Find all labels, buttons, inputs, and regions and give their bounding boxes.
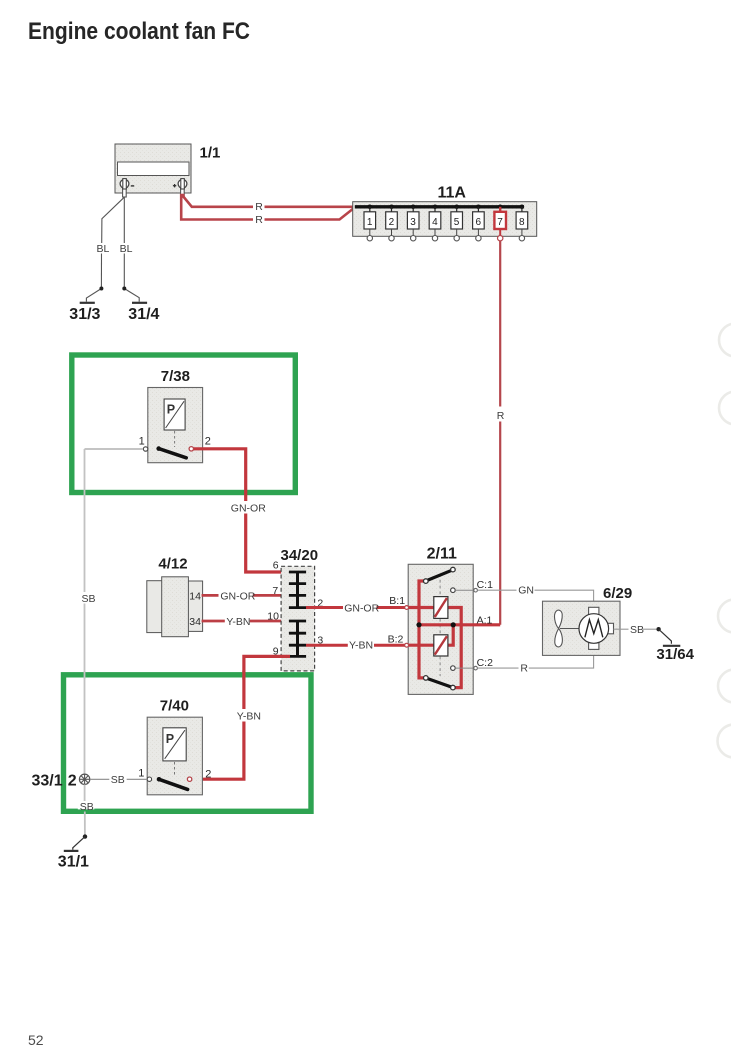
7/40 switch lever (157, 777, 188, 789)
svg-text:8: 8 (519, 217, 525, 228)
wire SB splice to 7/40 pin1 (90, 778, 147, 780)
relay 2/11 (408, 564, 473, 694)
wire GN relay C:1 to motor (477, 590, 593, 607)
34/20 upper connector comb (289, 572, 306, 608)
svg-text:6: 6 (273, 560, 279, 572)
svg-text:GN-OR: GN-OR (231, 502, 266, 514)
wire SB splice to ground 31/1 (84, 785, 86, 802)
svg-text:B:1: B:1 (389, 595, 405, 607)
relay top switch (424, 567, 456, 583)
wire BL battery to ground 31/4 (124, 197, 139, 301)
7/40 pin 2 (187, 777, 191, 781)
svg-text:6/29: 6/29 (603, 585, 632, 602)
relay internal red circuit (408, 581, 500, 688)
svg-text:31/1: 31/1 (58, 854, 89, 871)
wire SB motor to ground 31/64 (614, 628, 657, 630)
svg-text:7/40: 7/40 (160, 698, 189, 715)
ground 31/3 (80, 302, 95, 304)
svg-text:4: 4 (432, 217, 438, 228)
svg-text:SB: SB (630, 624, 644, 636)
svg-text:A:1: A:1 (477, 614, 493, 626)
wire SB crossing green border (84, 671, 86, 679)
7/38 pin 1 (143, 447, 147, 451)
wire Y-BN 4/12 pin34 to 34/20 pin10 (202, 620, 290, 623)
svg-text:4/12: 4/12 (158, 555, 187, 572)
fuse 7 highlighted (494, 205, 506, 241)
svg-text:1: 1 (367, 217, 373, 228)
relay coil linkage dashed (439, 574, 441, 676)
svg-text:B:2: B:2 (388, 634, 404, 646)
green highlight box 1 (72, 355, 295, 493)
fuse 6 (473, 205, 485, 241)
svg-text:34: 34 (189, 616, 201, 628)
wire R battery to fusebox upper (183, 194, 354, 207)
svg-text:P: P (167, 403, 175, 417)
ECU 4/12 (147, 577, 203, 637)
splice 33/1 pin 2 (79, 774, 89, 784)
svg-text:11A: 11A (438, 185, 467, 202)
svg-text:14: 14 (189, 590, 201, 602)
svg-text:2/11: 2/11 (427, 546, 457, 563)
wire Y-BN 34/20 pin3 to relay B:2 (306, 644, 407, 647)
svg-text:SB: SB (111, 774, 125, 786)
connector 34/20 (281, 566, 315, 671)
fan motor 6/29 (543, 601, 621, 655)
wire Y-BN 34/20 pin9 to 7/40 pin2 (195, 656, 290, 779)
motor M (579, 607, 614, 649)
svg-text:1/1: 1/1 (200, 145, 221, 162)
7/38 switch lever (156, 446, 186, 457)
fuse 2 (386, 205, 398, 241)
wire GN-OR 34/20 pin2 to relay B:1 (306, 606, 407, 609)
svg-text:P: P (166, 732, 174, 746)
svg-text:7: 7 (272, 585, 278, 597)
svg-text:BL: BL (97, 243, 110, 255)
svg-text:7: 7 (497, 217, 503, 228)
fan shaft (560, 628, 579, 630)
svg-text:1: 1 (139, 436, 145, 448)
ground 31/4 (132, 302, 147, 304)
wire BL battery to ground 31/3 (86, 197, 124, 301)
ground 31/1 (64, 850, 79, 852)
wire R battery to fusebox lower (181, 194, 355, 220)
svg-text:7/38: 7/38 (161, 368, 190, 385)
fuse box 11A (353, 202, 537, 237)
svg-text:34/20: 34/20 (281, 547, 319, 564)
wire R fuse 7 to relay A:1 (499, 241, 501, 625)
svg-text:R: R (255, 201, 263, 213)
svg-text:R: R (497, 410, 505, 422)
ground 31/64 (663, 645, 680, 647)
green highlight box 2 (64, 675, 312, 812)
svg-text:SB: SB (80, 801, 94, 813)
svg-text:2: 2 (68, 772, 77, 789)
battery 1/1 (115, 144, 191, 193)
relay coil 1 (434, 597, 448, 619)
svg-text:GN-OR: GN-OR (344, 602, 379, 614)
wire GN-OR 7/38 pin2 to 34/20 pin6 (193, 449, 290, 572)
svg-text:52: 52 (28, 1032, 44, 1048)
svg-text:2: 2 (389, 217, 395, 228)
svg-text:Y-BN: Y-BN (349, 639, 373, 651)
wire SB 7/38 pin1 to splice 33/1 (85, 449, 144, 774)
svg-text:R: R (520, 663, 528, 675)
svg-text:5: 5 (454, 217, 460, 228)
svg-text:SB: SB (82, 593, 96, 605)
svg-text:Y-BN: Y-BN (237, 710, 261, 722)
svg-text:R: R (255, 214, 263, 226)
svg-text:GN-OR: GN-OR (220, 590, 255, 602)
svg-text:6: 6 (476, 217, 482, 228)
svg-text:Engine coolant fan FC: Engine coolant fan FC (28, 18, 250, 45)
svg-text:2: 2 (205, 436, 211, 448)
svg-text:3: 3 (410, 217, 416, 228)
svg-text:GN: GN (518, 585, 534, 597)
wire GN-OR 4/12 pin14 to 34/20 pin7 (202, 594, 290, 597)
fuse 8 (516, 205, 528, 241)
svg-text:Y-BN: Y-BN (226, 616, 250, 628)
svg-text:C:1: C:1 (477, 579, 494, 591)
svg-text:10: 10 (267, 611, 279, 623)
svg-text:1: 1 (138, 768, 144, 780)
relay terminal B:2 (405, 643, 409, 647)
relay terminal C:2 (451, 666, 478, 671)
wire Y-BN crossing green border (242, 671, 245, 680)
relay junction dots (416, 622, 421, 627)
relay terminal B:1 (405, 606, 409, 610)
battery negative terminal (120, 179, 134, 197)
svg-text:31/4: 31/4 (128, 306, 159, 323)
battery positive terminal (173, 179, 187, 197)
pressure switch 7/40 (147, 717, 202, 795)
wire R relay C:2 to motor (477, 648, 593, 668)
fuse 4 (429, 205, 441, 241)
pressure switch 7/38 (148, 388, 203, 463)
fuse 1 (364, 205, 376, 241)
svg-text:2: 2 (205, 769, 211, 781)
fuse 3 (407, 205, 419, 241)
svg-text:C:2: C:2 (477, 657, 494, 669)
svg-text:33/1: 33/1 (32, 772, 63, 789)
svg-text:31/64: 31/64 (656, 646, 694, 663)
fan blades (555, 610, 563, 647)
34/20 lower connector comb (289, 621, 306, 656)
relay coil 2 (434, 635, 448, 656)
relay terminal C:1 (451, 588, 478, 593)
relay bottom switch (424, 676, 456, 690)
svg-text:31/3: 31/3 (69, 306, 100, 323)
fuse 5 (451, 205, 463, 241)
7/40 pin 1 (147, 777, 151, 781)
svg-text:BL: BL (120, 243, 133, 255)
